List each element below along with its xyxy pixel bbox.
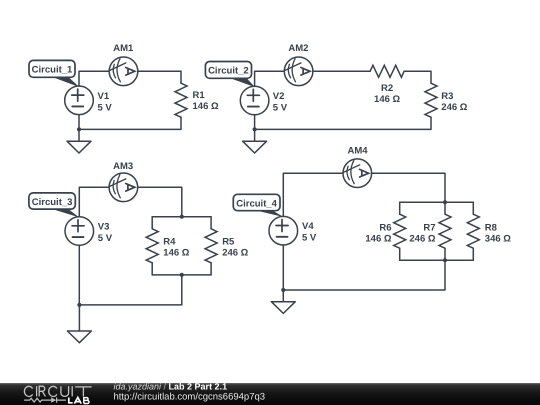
resistor R2 bbox=[370, 65, 404, 77]
svg-text:R2: R2 bbox=[381, 83, 393, 94]
net label Circuit_4 bbox=[233, 194, 283, 217]
wire R7 leads bbox=[444, 202, 446, 260]
logo resistor-diode squiggle bbox=[24, 397, 66, 402]
wire V4 bottom bbox=[282, 245, 284, 290]
wire V3 bottom bbox=[78, 245, 80, 305]
resistor R7 bbox=[439, 214, 451, 248]
svg-text:5 V: 5 V bbox=[98, 233, 113, 244]
label R7 246ohm bbox=[409, 223, 435, 245]
ammeter AM2 bbox=[284, 57, 313, 86]
wire AM4 to parallel network bbox=[372, 173, 445, 202]
footer url line bbox=[114, 391, 266, 402]
resistor R1 bbox=[175, 83, 187, 117]
resistor R4 bbox=[146, 229, 158, 263]
label V2 5 V bbox=[273, 91, 288, 114]
ground bbox=[243, 129, 267, 153]
svg-text:Circuit_4: Circuit_4 bbox=[236, 198, 277, 209]
wire R4 leads bbox=[151, 217, 153, 275]
svg-text:AM2: AM2 bbox=[288, 43, 308, 54]
node junction dot bbox=[77, 127, 81, 131]
resistor R8 bbox=[467, 214, 479, 248]
wire top from V1 to AM1 bbox=[79, 71, 109, 86]
svg-text:Circuit_3: Circuit_3 bbox=[32, 197, 73, 208]
ground bbox=[67, 129, 91, 153]
svg-text:146 Ω: 146 Ω bbox=[374, 94, 400, 105]
net label Circuit_2 bbox=[205, 62, 255, 88]
svg-text:R4: R4 bbox=[163, 236, 176, 247]
svg-text:V1: V1 bbox=[98, 91, 110, 102]
voltage source V1 bbox=[65, 86, 94, 115]
node junction dot ground bbox=[77, 303, 81, 307]
svg-text:AM3: AM3 bbox=[113, 161, 133, 172]
svg-text:R7: R7 bbox=[423, 223, 435, 234]
svg-text:AM4: AM4 bbox=[347, 146, 368, 157]
svg-text:V3: V3 bbox=[98, 222, 110, 233]
svg-text:R5: R5 bbox=[222, 236, 235, 247]
wire top from V3 to AM3 bbox=[79, 187, 109, 216]
svg-text:246 Ω: 246 Ω bbox=[441, 102, 467, 113]
svg-text:Circuit_2: Circuit_2 bbox=[208, 65, 249, 76]
svg-text:R8: R8 bbox=[485, 223, 497, 234]
ground bbox=[67, 305, 91, 343]
wire network to bottom bbox=[79, 275, 181, 305]
footer title line bbox=[114, 382, 228, 392]
svg-text:5 V: 5 V bbox=[98, 102, 113, 113]
ammeter AM1 bbox=[109, 57, 138, 86]
wire bottom R1 to V1 bbox=[79, 115, 181, 130]
label AM2 bbox=[288, 43, 308, 54]
svg-text:5 V: 5 V bbox=[302, 233, 317, 244]
logo wordmark LAB bbox=[69, 397, 89, 403]
ground bbox=[271, 290, 295, 313]
svg-text:R1: R1 bbox=[193, 90, 206, 101]
label AM4 bbox=[347, 146, 368, 157]
svg-text:http://circuitlab.com/cgcns669: http://circuitlab.com/cgcns6694p7q3 bbox=[114, 391, 266, 402]
label R4 146ohm bbox=[163, 236, 189, 258]
wire network to bottom bbox=[283, 260, 445, 290]
node junction dot ground bbox=[281, 288, 285, 292]
svg-text:146 Ω: 146 Ω bbox=[193, 101, 219, 112]
net label Circuit_3 bbox=[29, 193, 79, 218]
label R3 246ohm bbox=[441, 91, 467, 113]
label R2 146ohm bbox=[374, 83, 400, 105]
wire AM2 to R2 bbox=[313, 70, 370, 72]
wire top from V4 to AM4 bbox=[283, 173, 343, 216]
svg-text:V2: V2 bbox=[273, 91, 285, 102]
svg-text:146 Ω: 146 Ω bbox=[163, 247, 189, 258]
svg-text:AM1: AM1 bbox=[113, 43, 134, 54]
wire top from V2 to AM2 bbox=[255, 71, 285, 86]
wire AM3 to parallel network bbox=[138, 187, 182, 216]
svg-text:346 Ω: 346 Ω bbox=[485, 234, 511, 245]
label AM1 bbox=[113, 43, 134, 54]
svg-text:246 Ω: 246 Ω bbox=[222, 247, 248, 258]
CircuitLab logo wordmark CIRCUIT bbox=[24, 386, 91, 396]
wire R5 leads bbox=[210, 217, 212, 275]
svg-text:246 Ω: 246 Ω bbox=[409, 234, 435, 245]
node junction dot bbox=[253, 127, 257, 131]
label V3 5 V bbox=[98, 222, 113, 245]
wire R2 to R3 top bbox=[404, 71, 431, 83]
label V4 5 V bbox=[302, 221, 317, 244]
svg-text:Circuit_1: Circuit_1 bbox=[32, 64, 73, 75]
resistor R3 bbox=[425, 83, 437, 117]
svg-text:R3: R3 bbox=[441, 91, 453, 102]
ammeter AM4 bbox=[343, 159, 372, 188]
wire bottom R3 to V2 bbox=[255, 115, 431, 129]
wire R6 leads bbox=[399, 202, 401, 260]
label V1 5 V bbox=[98, 91, 113, 114]
resistor R6 bbox=[394, 214, 406, 248]
svg-text:R6: R6 bbox=[379, 223, 391, 234]
wire AM1 to R1 top bbox=[138, 71, 181, 83]
wire top bus bbox=[152, 216, 211, 218]
wire bottom bus bbox=[152, 274, 211, 276]
label AM3 bbox=[113, 161, 133, 172]
wire R8 leads bbox=[472, 202, 474, 260]
footer bar bbox=[0, 383, 540, 405]
voltage source V3 bbox=[65, 217, 94, 246]
svg-text:V4: V4 bbox=[302, 221, 314, 232]
svg-text:ida.yazdiani / Lab 2 Part 2.1: ida.yazdiani / Lab 2 Part 2.1 bbox=[114, 383, 228, 392]
label R5 246ohm bbox=[222, 236, 248, 258]
wire top bus bbox=[400, 201, 474, 203]
ammeter AM3 bbox=[109, 173, 138, 202]
svg-text:5 V: 5 V bbox=[273, 103, 288, 114]
svg-text:146 Ω: 146 Ω bbox=[365, 234, 391, 245]
resistor R5 bbox=[205, 229, 217, 263]
node junction dot top bbox=[180, 215, 184, 219]
label R8 346ohm bbox=[485, 223, 511, 245]
label R6 146ohm bbox=[365, 223, 391, 245]
voltage source V2 bbox=[240, 86, 269, 115]
net label Circuit_1 bbox=[29, 60, 79, 87]
wire bottom bus bbox=[400, 259, 474, 261]
node junction dot bottom bbox=[443, 258, 447, 262]
node junction dot top bbox=[443, 200, 447, 204]
label R1 146ohm bbox=[193, 90, 219, 112]
voltage source V4 bbox=[269, 216, 298, 245]
node junction dot bottom bbox=[180, 273, 184, 277]
